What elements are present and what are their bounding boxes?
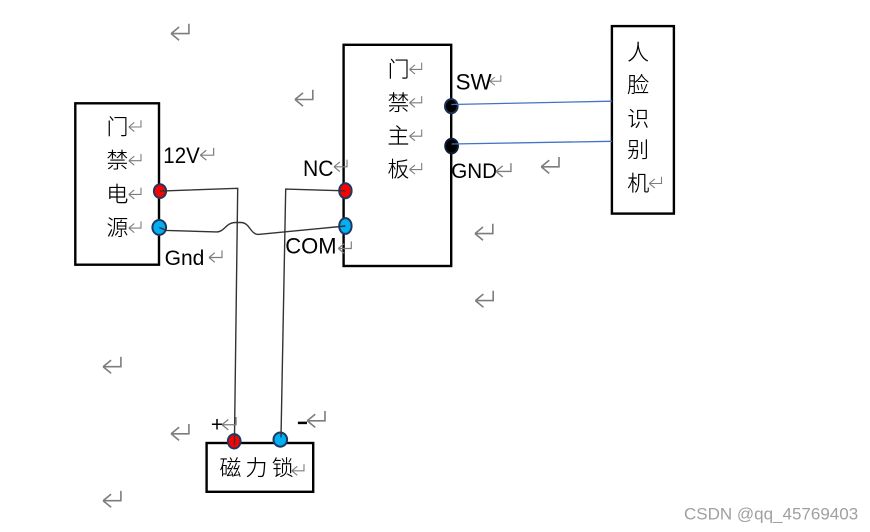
svg-text:禁: 禁 bbox=[106, 143, 128, 175]
wire: GND to face recognition machine (blue) bbox=[452, 141, 612, 144]
svg-text:主: 主 bbox=[387, 119, 409, 151]
paragraph mark after 禁 bbox=[129, 154, 141, 165]
svg-text:SW: SW bbox=[456, 70, 493, 95]
paragraph mark after SW bbox=[490, 75, 501, 85]
node: 12V terminal (red dot) bbox=[154, 184, 166, 198]
svg-text:CSDN @qq_45769403: CSDN @qq_45769403 bbox=[684, 504, 858, 523]
svg-text:源: 源 bbox=[106, 211, 128, 243]
paragraph mark after 磁力锁 bbox=[292, 464, 304, 475]
paragraph mark after Gnd bbox=[209, 250, 222, 262]
stray paragraph mark P1 bbox=[171, 24, 189, 40]
box: door access power supply 门禁电源 bbox=[75, 103, 159, 264]
svg-text:门: 门 bbox=[106, 110, 128, 142]
paragraph mark after - bbox=[307, 411, 325, 427]
box: magnetic lock 磁力锁 bbox=[207, 443, 314, 492]
paragraph mark after 禁 bbox=[410, 96, 422, 107]
node: Gnd terminal (blue dot) bbox=[152, 220, 166, 235]
stray paragraph mark P7 bbox=[103, 357, 121, 373]
wire: SW to face recognition machine (blue) bbox=[451, 101, 612, 104]
paragraph mark after 门 bbox=[410, 63, 422, 74]
paragraph mark after + bbox=[222, 417, 236, 430]
paragraph mark after COM bbox=[338, 241, 351, 253]
paragraph mark after 12V bbox=[200, 148, 213, 160]
stray paragraph mark P2 bbox=[295, 90, 313, 106]
svg-text:脸: 脸 bbox=[627, 68, 649, 100]
wire: Gnd to COM (hop over 12V wire) bbox=[159, 223, 345, 235]
paragraph mark after 主 bbox=[410, 129, 422, 140]
svg-text:Gnd: Gnd bbox=[165, 246, 205, 270]
node: lock + terminal (red dot) bbox=[228, 434, 241, 448]
svg-text:别: 别 bbox=[627, 132, 649, 164]
svg-text:机: 机 bbox=[627, 166, 649, 198]
node: SW terminal (black dot) bbox=[445, 99, 458, 113]
stray paragraph mark P4 bbox=[541, 157, 559, 173]
stray paragraph mark P6 bbox=[475, 291, 493, 307]
node: GND terminal (black dot) bbox=[445, 139, 458, 154]
paragraph mark after 源 bbox=[129, 221, 141, 232]
stray paragraph mark P10 bbox=[103, 491, 121, 507]
svg-text:板: 板 bbox=[387, 152, 409, 184]
node: COM terminal (blue dot) bbox=[339, 218, 351, 234]
node: lock - terminal (blue dot) bbox=[274, 433, 288, 447]
svg-text:+: + bbox=[211, 413, 223, 436]
wire: NC to lock - bbox=[281, 189, 345, 437]
label - (lock negative) bbox=[298, 422, 307, 425]
paragraph mark after NC bbox=[334, 160, 347, 172]
node: NC terminal (red dot) bbox=[339, 183, 351, 198]
paragraph mark after GND bbox=[496, 163, 511, 177]
paragraph mark after 门 bbox=[129, 120, 141, 131]
svg-text:COM: COM bbox=[285, 234, 336, 259]
stray paragraph mark P8 bbox=[171, 424, 189, 440]
stray paragraph mark P5 bbox=[475, 224, 493, 240]
paragraph mark after 电 bbox=[129, 188, 141, 199]
svg-text:12V: 12V bbox=[163, 143, 200, 168]
svg-text:人: 人 bbox=[627, 35, 649, 67]
svg-text:识: 识 bbox=[627, 101, 649, 133]
svg-text:磁力锁: 磁力锁 bbox=[220, 451, 298, 483]
svg-text:禁: 禁 bbox=[387, 85, 409, 117]
svg-text:GND: GND bbox=[451, 160, 497, 183]
svg-text:NC: NC bbox=[303, 156, 333, 182]
box: door access main board 门禁主板 bbox=[344, 45, 452, 266]
svg-text:电: 电 bbox=[106, 177, 128, 209]
box: face recognition machine 人脸识别机 bbox=[612, 26, 674, 214]
svg-text:门: 门 bbox=[387, 52, 409, 84]
paragraph mark after 板 bbox=[410, 163, 422, 174]
paragraph mark after 机 bbox=[649, 177, 661, 188]
wire: 12V to lock + bbox=[160, 188, 238, 445]
